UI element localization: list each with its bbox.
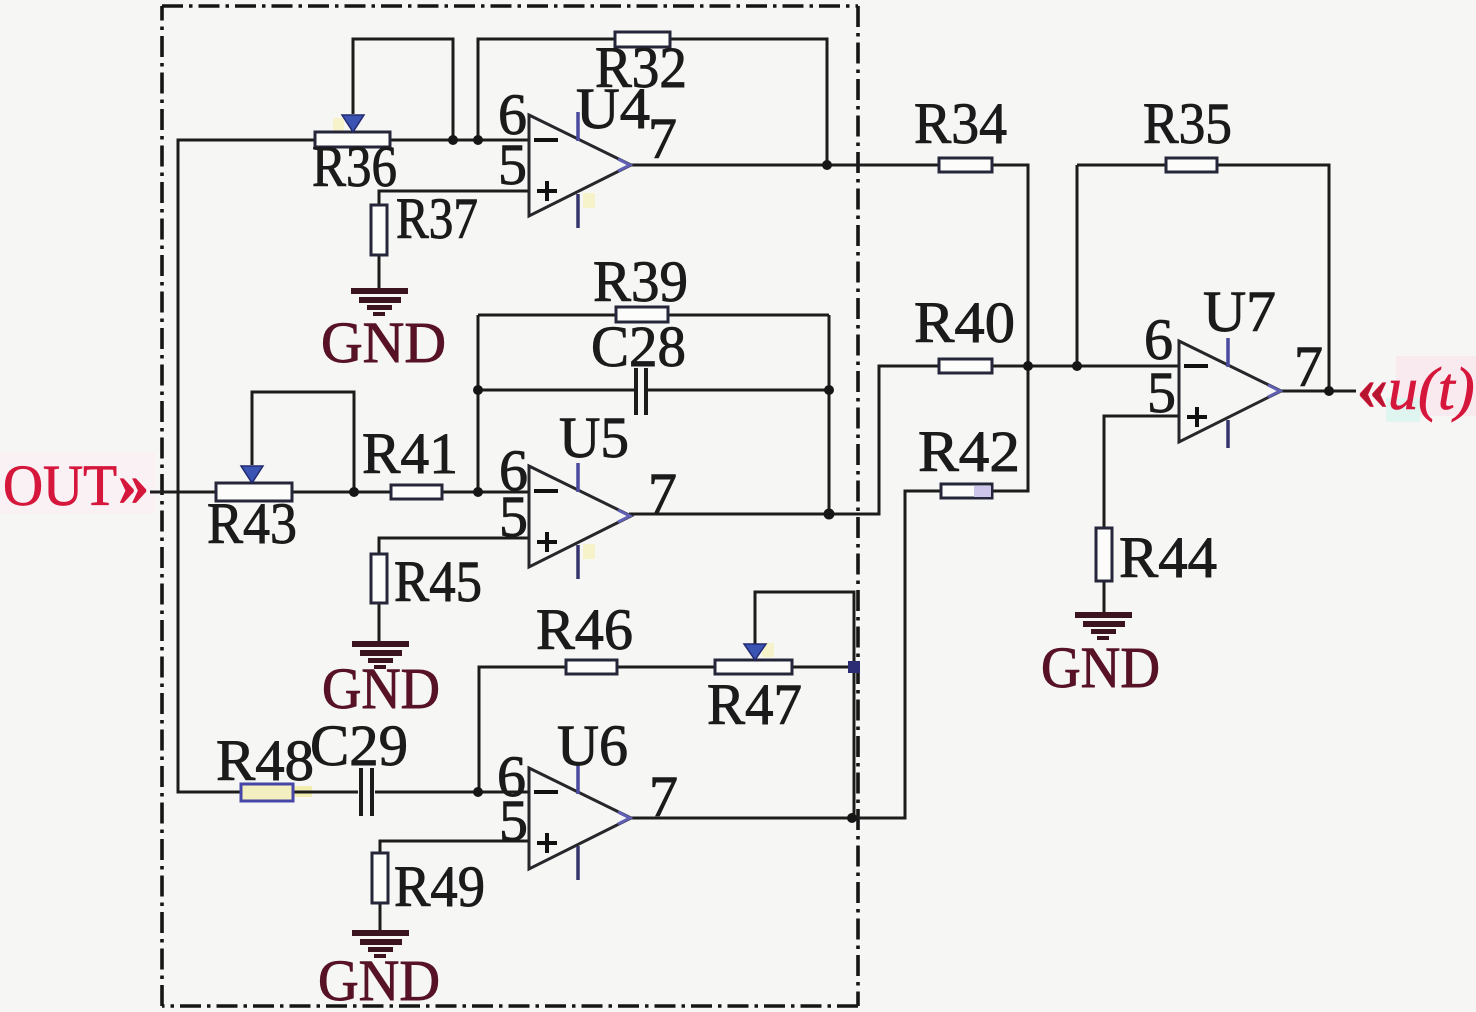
wire: R39/C28 right vertical to U5 output	[828, 315, 831, 514]
resistor R48 body	[241, 784, 293, 801]
svg-text:C28: C28	[591, 314, 686, 379]
svg-text:R48: R48	[216, 728, 314, 793]
potentiometer R43 wiper arrow	[241, 466, 263, 483]
wire: R48 to C29 left plate	[293, 791, 358, 794]
wire: R32 right lead down to U4 output	[670, 39, 827, 165]
wire: U5 non-inverting input (pin 5) to R45	[379, 538, 529, 554]
svg-text:R47: R47	[707, 672, 802, 737]
svg-text:GND: GND	[1041, 635, 1160, 700]
svg-text:U5: U5	[559, 405, 629, 470]
svg-text:«: «	[1357, 355, 1388, 423]
svg-text:R40: R40	[914, 290, 1015, 355]
wire: R39 top row right segment	[668, 314, 829, 317]
op-amp U6 minus sign	[534, 790, 558, 794]
svg-text:R43: R43	[207, 491, 297, 556]
svg-text:U7: U7	[1203, 279, 1276, 344]
junction at U4 output node	[822, 160, 832, 170]
yellow smudge under U5 power pin	[583, 544, 595, 559]
wire: R39 top row left segment	[478, 314, 616, 317]
blue tint inside right end of R42	[974, 486, 991, 497]
op-amp U5 triangle	[529, 466, 631, 567]
wire: C28 row left segment	[478, 389, 634, 392]
op-amp U4 plus sign	[537, 181, 557, 201]
resistor R49 body	[372, 853, 388, 903]
svg-text:R39: R39	[593, 249, 688, 314]
highlight tint behind u(t) output label	[1396, 356, 1476, 416]
wire: R42 left lead down and to U6 output	[852, 491, 941, 818]
wire: R47 right terminal to loop node	[792, 666, 854, 669]
svg-text:R35: R35	[1143, 91, 1232, 156]
wire: U6 output to R42 corner	[629, 817, 905, 820]
junction at R40/R34 node	[1023, 361, 1033, 371]
highlight tint cyan at output chevron	[1386, 398, 1420, 422]
wire: R34 right lead down to R40 node	[992, 165, 1028, 366]
wire: U7 output to u(t) port	[1278, 390, 1356, 393]
op-amp U4 minus sign	[534, 138, 558, 142]
svg-text:7: 7	[1294, 334, 1323, 399]
wire: R41 to U5 inverting input (pin 6 row)	[442, 491, 529, 494]
wire: R39/C28 left vertical to U5 input node	[477, 315, 480, 492]
op-amp U5 minus sign	[534, 489, 558, 493]
svg-text:R44: R44	[1119, 525, 1217, 590]
wire: R46 left lead down to U6 input node	[479, 667, 566, 792]
potentiometer R47 wiper arrow	[744, 644, 766, 660]
svg-text:R37: R37	[396, 186, 478, 251]
wire: input bus from R36 row down left side to R48 row	[178, 140, 315, 792]
svg-text:»: »	[118, 451, 149, 519]
capacitor C29 plates	[361, 768, 372, 816]
wire: R43 right terminal to R41	[292, 491, 391, 494]
ground symbol below R44	[1075, 612, 1132, 640]
wire: R35 top row left segment	[1077, 164, 1166, 167]
wire: R35 left vertical down to U7 input row	[1076, 165, 1079, 366]
wire: U7 non-inverting input (pin 5) to R44	[1104, 416, 1179, 528]
svg-text:R41: R41	[362, 421, 458, 486]
junction at U4 inverting input node	[473, 135, 483, 145]
wire: R47 wiper loop down to U6 output row	[755, 592, 854, 818]
resistor R34 body	[939, 158, 992, 172]
svg-text:GND: GND	[318, 948, 440, 1012]
op-amp U7 bottom power pin	[1226, 420, 1230, 448]
svg-text:R46: R46	[536, 597, 633, 662]
resistor R45 body	[371, 554, 387, 603]
op-amp U6 triangle	[529, 768, 631, 869]
svg-text:5: 5	[499, 484, 528, 549]
resistor R39 body	[616, 307, 668, 322]
wire: R32 left lead down to U4 input node	[478, 39, 615, 140]
wire: R35 right lead down to U7 output	[1217, 165, 1329, 391]
junction at U5 inverting input node	[473, 487, 483, 497]
wire: U6 non-inverting input (pin 5) to R49	[380, 841, 529, 853]
resistor R42 body	[941, 484, 992, 498]
svg-text:R34: R34	[914, 91, 1007, 156]
ground symbol below R37	[351, 288, 408, 316]
wire: R45 bottom to ground	[378, 603, 381, 642]
yellow smudge in R43 body	[234, 488, 260, 497]
op-amp U6 bottom power pin	[576, 846, 580, 880]
junction at R35 left node	[1072, 361, 1082, 371]
wire: C29 right plate to U6 inverting input	[375, 791, 529, 794]
junction at U6 output node	[847, 813, 857, 823]
svg-text:C29: C29	[310, 713, 408, 778]
svg-text:GND: GND	[321, 310, 446, 375]
wire: R40 output node to U7 inverting input	[992, 365, 1179, 368]
op-amp U7 top power pin	[1226, 338, 1230, 367]
svg-text:U4: U4	[576, 76, 650, 141]
svg-text:R49: R49	[394, 854, 485, 919]
svg-text:7: 7	[648, 106, 677, 171]
highlight tint behind OUT port	[0, 452, 155, 514]
resistor R44 body	[1096, 528, 1112, 581]
wire: R36 right terminal to U4 inverting input	[390, 139, 529, 142]
junction at U5 output node	[824, 509, 835, 520]
op-amp U5 top power pin	[576, 463, 580, 492]
wire: OUT port to R43 left terminal	[150, 491, 216, 494]
junction at R36 right terminal node	[448, 135, 458, 145]
svg-text:OUT: OUT	[3, 453, 117, 518]
junction at U6 inverting input node	[473, 787, 483, 797]
wire: U4 output to R34	[629, 164, 939, 167]
wire: R44 bottom to ground	[1103, 581, 1106, 612]
potentiometer R36 body	[315, 132, 390, 147]
ground symbol below R49	[352, 930, 409, 958]
op-amp U4 blue tip accent	[618, 159, 630, 171]
svg-text:7: 7	[649, 764, 678, 829]
svg-text:5: 5	[498, 132, 527, 197]
junction at R43 output node	[349, 487, 359, 497]
potentiometer R47 body	[715, 660, 792, 674]
potentiometer R36 wiper arrow	[342, 115, 364, 132]
resistor R46 body	[566, 660, 617, 674]
svg-text:U6: U6	[557, 713, 628, 778]
junction at U7 output node	[1324, 386, 1334, 396]
junction at R47 right terminal (navy)	[848, 661, 860, 673]
resistor R32 body	[615, 32, 670, 47]
potentiometer R43 body	[216, 483, 292, 501]
junction at C28 left node	[473, 385, 483, 395]
svg-text:R42: R42	[918, 419, 1020, 484]
op-amp U6 top power pin	[576, 765, 580, 794]
resistor R37 body	[371, 205, 387, 255]
resistor R40 body	[939, 359, 992, 373]
op-amp U7 plus sign	[1187, 407, 1207, 427]
wire: R37 bottom to ground	[378, 255, 381, 290]
yellow smudge under U4 power pin	[583, 193, 595, 208]
svg-text:R45: R45	[394, 549, 482, 614]
wire: U4 non-inverting input (pin 5) to R37	[379, 191, 529, 205]
op-amp U5 plus sign	[537, 532, 557, 552]
op-amp U6 blue tip accent	[618, 812, 630, 824]
svg-text:7: 7	[648, 461, 677, 526]
dash-dot boundary box of filter block	[162, 6, 858, 1006]
yellow smudge near R36 wiper	[333, 118, 344, 131]
capacitor C28 plates	[636, 368, 646, 415]
op-amp U5 blue tip accent	[618, 510, 630, 522]
svg-text:5: 5	[1147, 360, 1176, 425]
svg-text:GND: GND	[322, 656, 440, 721]
op-amp U6 plus sign	[537, 833, 557, 853]
wire: R42 right lead up to R40 node	[992, 366, 1028, 491]
op-amp U7 blue tip accent	[1268, 385, 1280, 397]
svg-text:5: 5	[499, 788, 528, 853]
wire: R43 wiper loop to output-side node	[252, 392, 354, 492]
resistor R41 body	[391, 485, 442, 499]
wire: C28 row right segment	[647, 389, 829, 392]
op-amp U5 bottom power pin	[576, 545, 580, 579]
op-amp U4 top power pin	[576, 112, 580, 141]
svg-text:R36: R36	[312, 134, 397, 199]
wire: R36 wiper loop to right terminal node	[353, 39, 453, 140]
wire: U5 output right then up to R40 row	[629, 366, 939, 514]
ground symbol below R45	[352, 641, 409, 669]
op-amp U4 bottom power pin	[576, 194, 580, 228]
wire: R49 bottom to ground	[379, 903, 382, 931]
yellow smudge right of R47 wiper	[762, 643, 774, 657]
op-amp U7 triangle	[1179, 341, 1281, 442]
yellow smudge on R48 body	[250, 786, 312, 797]
op-amp U7 minus sign	[1184, 364, 1208, 368]
junction at C28 right node	[824, 385, 834, 395]
resistor R35 body	[1166, 158, 1217, 172]
svg-text:u(t): u(t)	[1388, 356, 1475, 422]
wire: R46 right lead to R47	[617, 666, 715, 669]
op-amp U4 triangle	[529, 115, 631, 216]
